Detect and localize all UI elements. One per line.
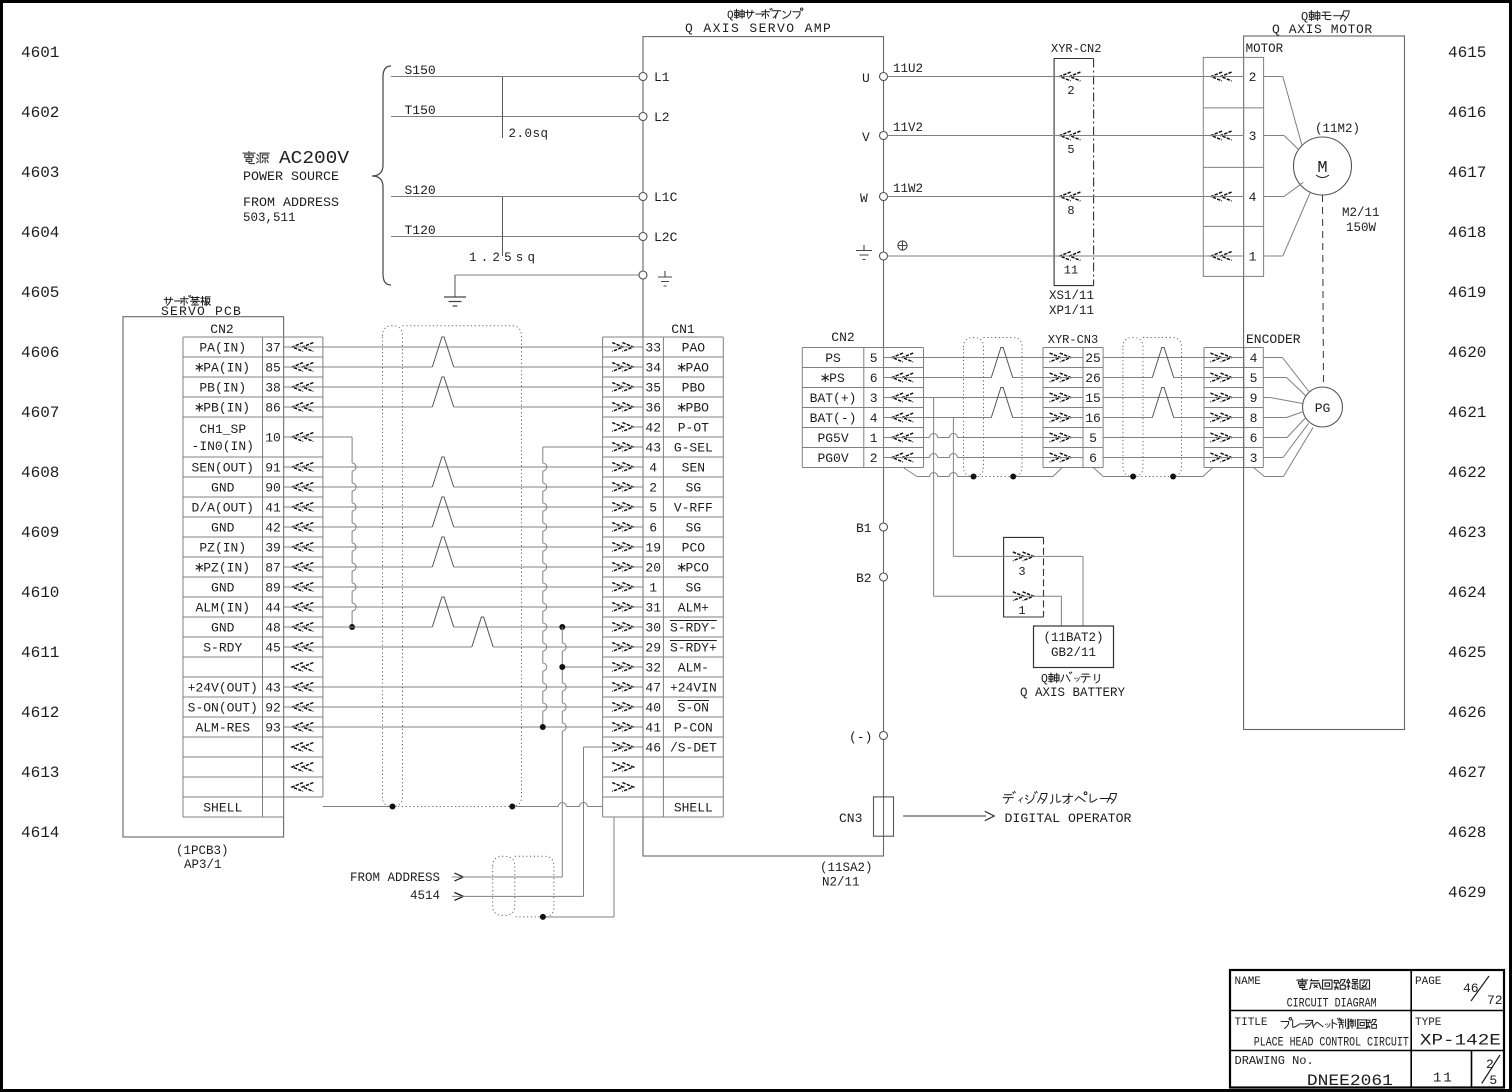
svg-text:XYR-CN3: XYR-CN3 [1048, 333, 1098, 347]
svg-text:PG0V: PG0V [817, 451, 848, 466]
svg-text:11: 11 [1433, 1071, 1454, 1087]
wire row 7 (SG) [284, 486, 433, 488]
svg-text:4604: 4604 [21, 224, 59, 242]
XYR-CN3 arrows [1050, 353, 1061, 362]
svg-text:39: 39 [265, 541, 281, 556]
svg-text:XP-142E: XP-142E [1420, 1032, 1501, 1050]
motor outer box M1 [1244, 36, 1405, 730]
battery connector box [1004, 537, 1044, 617]
svg-text:4623: 4623 [1448, 524, 1486, 542]
svg-text:PS: PS [825, 351, 841, 366]
svg-text:2: 2 [1249, 70, 1257, 85]
svg-text:Q: Q [1041, 673, 1048, 686]
svg-text:PA(IN): PA(IN) [199, 341, 246, 356]
svg-text:Q AXIS MOTOR: Q AXIS MOTOR [1272, 22, 1373, 37]
encoder wires to PG [1263, 357, 1282, 359]
svg-text:PB(IN): PB(IN) [199, 381, 246, 396]
wire PS row [884, 357, 1084, 359]
svg-text:43: 43 [265, 681, 281, 696]
svg-text:Q AXIS BATTERY: Q AXIS BATTERY [1020, 686, 1126, 700]
wire row 19 (P-CON) [284, 726, 643, 728]
svg-text:PBO: PBO [682, 381, 706, 396]
svg-text:3: 3 [870, 391, 878, 406]
svg-text:BAT(+): BAT(+) [810, 391, 857, 406]
svg-text:/S-DET: /S-DET [670, 741, 717, 756]
svg-text:1: 1 [1018, 604, 1025, 618]
svg-text:4627: 4627 [1448, 764, 1486, 782]
svg-text:42: 42 [265, 521, 281, 536]
svg-text:U: U [862, 71, 870, 86]
wire BAT(-) row [884, 417, 992, 419]
svg-text:4621: 4621 [1448, 404, 1486, 422]
svg-text:S150: S150 [405, 63, 436, 78]
svg-text:ENCODER: ENCODER [1246, 332, 1301, 347]
ENCODER arrows [1210, 353, 1221, 362]
svg-text:W: W [860, 191, 868, 206]
dashed link motor-encoder [1323, 195, 1324, 387]
CN1 arrows [612, 343, 623, 352]
svg-text:4: 4 [649, 461, 657, 476]
svg-text:85: 85 [265, 361, 281, 376]
wire /S-DET from below [584, 746, 644, 748]
wire PB row [284, 386, 643, 388]
svg-text:DRAWING No.: DRAWING No. [1235, 1054, 1314, 1068]
wire row 9 (SG) [284, 526, 433, 528]
svg-text:CN3: CN3 [839, 811, 862, 826]
ground symbol (power input) [444, 297, 466, 306]
svg-text:(11SA2): (11SA2) [820, 861, 873, 875]
svg-text:4609: 4609 [21, 524, 59, 542]
svg-text:V-RFF: V-RFF [674, 501, 713, 516]
svg-text:N2/11: N2/11 [822, 876, 860, 890]
svg-text:SG: SG [686, 581, 702, 596]
wire G-SEL from below [543, 446, 643, 448]
connector CN3 [874, 797, 894, 836]
svg-text:P-OT: P-OT [678, 421, 709, 436]
svg-text:GND: GND [211, 621, 235, 636]
wire CH1_SP-IN0 (pin10) down to GND48 row [284, 436, 353, 438]
svg-text:SERVO PCB: SERVO PCB [161, 304, 242, 319]
svg-text:S-ON(OUT): S-ON(OUT) [188, 701, 258, 716]
terminal W [880, 193, 888, 201]
svg-text:4620: 4620 [1448, 344, 1486, 362]
svg-text:15: 15 [1085, 391, 1101, 406]
svg-text:S120: S120 [405, 183, 436, 198]
svg-text:L2: L2 [654, 110, 670, 125]
svg-text:72: 72 [1487, 993, 1503, 1008]
svg-text:33: 33 [645, 341, 661, 356]
terminal B1 [880, 523, 888, 531]
svg-text:AP3/1: AP3/1 [184, 858, 222, 872]
svg-text:P-CON: P-CON [674, 721, 713, 736]
svg-text:T150: T150 [405, 103, 436, 118]
connector ENCODER table [1203, 348, 1205, 468]
svg-text:4614: 4614 [21, 824, 59, 842]
svg-text:+24VIN: +24VIN [670, 681, 717, 696]
svg-text:Q AXIS SERVO AMP: Q AXIS SERVO AMP [685, 21, 832, 36]
svg-text:PG5V: PG5V [817, 431, 848, 446]
svg-text:44: 44 [265, 601, 281, 616]
svg-text:4: 4 [1250, 351, 1258, 366]
CN2 (servo pcb) arrows [292, 343, 303, 352]
svg-text:1: 1 [649, 581, 657, 596]
svg-text:4622: 4622 [1448, 464, 1486, 482]
cable size tick 2.0sq [502, 77, 504, 138]
encoder cable shields (dotted) [964, 338, 984, 477]
svg-text:4: 4 [870, 411, 878, 426]
svg-text:4: 4 [1249, 190, 1257, 205]
motor wires to circle [1264, 76, 1283, 78]
svg-text:4612: 4612 [21, 704, 59, 722]
svg-text:PAO: PAO [682, 341, 706, 356]
svg-text:4624: 4624 [1448, 584, 1486, 602]
shield drain line (right) [903, 468, 917, 477]
svg-text:L2C: L2C [654, 230, 678, 245]
twisted pair marks (right) [991, 348, 1012, 378]
svg-text:1: 1 [870, 431, 878, 446]
terminal B2 [880, 573, 888, 581]
svg-text:S-RDY+: S-RDY+ [670, 641, 717, 656]
svg-text:8: 8 [1250, 411, 1258, 426]
svg-text:30: 30 [645, 621, 661, 636]
wire row 17 (+24VIN) [284, 686, 643, 688]
wire *PS row [884, 377, 992, 379]
svg-text:M2/11: M2/11 [1342, 206, 1380, 220]
shield drain SHELL-SHELL [323, 806, 390, 808]
svg-text:CIRCUIT DIAGRAM: CIRCUIT DIAGRAM [1287, 996, 1377, 1011]
svg-text:32: 32 [645, 661, 661, 676]
svg-text:25: 25 [1085, 351, 1101, 366]
svg-text:92: 92 [265, 701, 281, 716]
wire *PB row [284, 406, 433, 408]
svg-text:GND: GND [211, 581, 235, 596]
terminal ground (amp output) [880, 252, 888, 260]
svg-text:1: 1 [1249, 250, 1257, 265]
svg-text:D/A(OUT): D/A(OUT) [192, 501, 254, 516]
ground wire into amp [455, 274, 639, 276]
svg-text:PAGE: PAGE [1415, 976, 1442, 988]
svg-text:4605: 4605 [21, 284, 59, 302]
wire BAT(-) down to battery pin 3 [952, 418, 954, 557]
svg-text:NAME: NAME [1235, 976, 1262, 988]
svg-text:ALM-RES: ALM-RES [195, 721, 250, 736]
wire BAT(+) row [884, 397, 1084, 399]
svg-text:29: 29 [645, 641, 661, 656]
CN2 (amp encoder) arrows [892, 353, 903, 362]
svg-text:GB2/11: GB2/11 [1051, 646, 1096, 660]
svg-text:XP1/11: XP1/11 [1049, 304, 1094, 318]
svg-text:5: 5 [1489, 1073, 1497, 1088]
svg-text:2: 2 [649, 481, 657, 496]
svg-text:(-): (-) [849, 730, 872, 745]
svg-text:L1C: L1C [654, 190, 678, 205]
battery pin 3 [1013, 552, 1024, 561]
svg-text:6: 6 [870, 371, 878, 386]
svg-text:L1: L1 [654, 70, 670, 85]
wire row 18 (S-ON) [284, 706, 643, 708]
svg-text:V: V [862, 130, 870, 145]
svg-text:MOTOR: MOTOR [1246, 42, 1284, 56]
svg-text:PZ(IN): PZ(IN) [203, 561, 250, 576]
svg-text:4613: 4613 [21, 764, 59, 782]
svg-text:4619: 4619 [1448, 284, 1486, 302]
svg-text:1.25sq: 1.25sq [469, 251, 539, 265]
svg-text:91: 91 [265, 461, 281, 476]
wire ground phase [888, 255, 1244, 257]
wire ALM- segment [562, 666, 643, 668]
svg-text:6: 6 [1089, 451, 1097, 466]
svg-text:48: 48 [265, 621, 281, 636]
wire PA row [284, 346, 643, 348]
svg-text:3: 3 [1249, 129, 1257, 144]
svg-text:5: 5 [1089, 431, 1097, 446]
shield stub to CN1 SHELL bottom [613, 817, 615, 917]
terminal L1C [639, 193, 647, 201]
svg-text:DIGITAL OPERATOR: DIGITAL OPERATOR [1005, 811, 1132, 826]
servo amp outer box U1 [643, 37, 884, 856]
cable shield (left, dotted) [383, 326, 403, 807]
svg-text:10: 10 [265, 431, 281, 446]
connector XYR-CN3 table [1042, 348, 1044, 468]
svg-text:11U2: 11U2 [893, 62, 923, 76]
svg-text:-IN0(IN): -IN0(IN) [192, 439, 254, 454]
svg-text:4628: 4628 [1448, 824, 1486, 842]
svg-text:TITLE: TITLE [1235, 1017, 1268, 1029]
svg-text:S-ON: S-ON [678, 701, 709, 716]
svg-text:503,511: 503,511 [243, 211, 296, 225]
label: power source (JP+EN) [243, 151, 269, 163]
svg-text:ALM+: ALM+ [678, 601, 709, 616]
svg-text:2.0sq: 2.0sq [509, 127, 549, 141]
svg-text:38: 38 [265, 381, 281, 396]
svg-text:XS1/11: XS1/11 [1049, 289, 1094, 303]
svg-text:40: 40 [645, 701, 661, 716]
cable size tick 1.25sq [502, 197, 504, 256]
svg-text:DNEE2061: DNEE2061 [1307, 1072, 1393, 1090]
P-OT stub [631, 426, 643, 428]
svg-text:37: 37 [265, 341, 281, 356]
svg-text:SG: SG [686, 521, 702, 536]
svg-text:3: 3 [1250, 451, 1258, 466]
svg-text:90: 90 [265, 481, 281, 496]
wire row 8 (V-RFF) [284, 506, 643, 508]
svg-text:3: 3 [1018, 565, 1025, 579]
svg-text:4607: 4607 [21, 404, 59, 422]
label: Q AXIS BATTERY [0, 0, 1, 1]
svg-text:PZ(IN): PZ(IN) [199, 541, 246, 556]
svg-text:5: 5 [1067, 143, 1074, 157]
svg-text:SHELL: SHELL [674, 801, 713, 816]
svg-text:150W: 150W [1346, 221, 1377, 235]
svg-text:ALM(IN): ALM(IN) [195, 601, 250, 616]
terminal L2 [639, 113, 647, 121]
svg-text:TYPE: TYPE [1415, 1017, 1442, 1029]
svg-text:4618: 4618 [1448, 224, 1486, 242]
svg-text:B2: B2 [856, 571, 872, 586]
battery wires into battery box [1082, 556, 1084, 626]
svg-text:35: 35 [645, 381, 661, 396]
wire row 6 (SEN) [284, 466, 643, 468]
from-address shield (dotted) [493, 856, 515, 915]
svg-text:41: 41 [645, 721, 661, 736]
svg-text:PCO: PCO [682, 541, 706, 556]
terminal V [880, 132, 888, 140]
terminal L2C [639, 233, 647, 241]
svg-text:4603: 4603 [21, 164, 59, 182]
svg-text:PB(IN): PB(IN) [203, 401, 250, 416]
label: DIGITAL OPERATOR [1003, 791, 1116, 803]
svg-text:46: 46 [645, 741, 661, 756]
svg-text:6: 6 [649, 521, 657, 536]
svg-text:PBO: PBO [686, 401, 710, 416]
servo pcb outer box [123, 317, 284, 837]
battery GB2/11 box [1034, 626, 1114, 668]
svg-text:GND: GND [211, 481, 235, 496]
wire row 12 (SG) [284, 586, 643, 588]
wire row 13 (ALM+) [284, 606, 643, 608]
svg-text:PAO: PAO [686, 361, 710, 376]
svg-text:SEN(OUT): SEN(OUT) [192, 461, 254, 476]
plus-earth symbol [898, 241, 907, 250]
svg-text:4602: 4602 [21, 104, 59, 122]
svg-text:POWER SOURCE: POWER SOURCE [243, 169, 339, 184]
svg-text:SG: SG [686, 481, 702, 496]
svg-text:(11BAT2): (11BAT2) [1043, 631, 1103, 645]
svg-text:11V2: 11V2 [893, 121, 923, 135]
svg-text:4608: 4608 [21, 464, 59, 482]
svg-text:XYR-CN2: XYR-CN2 [1051, 42, 1101, 56]
svg-text:9: 9 [1250, 391, 1258, 406]
wire tap S-RDY- / ALM- / from-address-1 vertical [559, 624, 565, 630]
svg-text:4626: 4626 [1448, 704, 1486, 722]
svg-text:5: 5 [649, 501, 657, 516]
svg-text:PCO: PCO [686, 561, 710, 576]
svg-text:FROM ADDRESS: FROM ADDRESS [350, 871, 440, 885]
svg-text:SHELL: SHELL [203, 801, 242, 816]
connector CN2 (servo pcb) table [182, 337, 184, 817]
svg-text:11: 11 [1064, 264, 1078, 278]
svg-text:5: 5 [870, 351, 878, 366]
svg-text:PG: PG [1315, 401, 1331, 416]
wire *PA row [284, 366, 433, 368]
twisted pair marks (left) [432, 337, 453, 367]
wire BAT(+) down to battery pin 1 [933, 398, 935, 597]
svg-text:26: 26 [1085, 371, 1101, 386]
svg-text:CH1_SP: CH1_SP [199, 422, 246, 437]
svg-text:PS: PS [829, 371, 845, 386]
svg-text:41: 41 [265, 501, 281, 516]
wire row 10 (PCO) [284, 546, 643, 548]
svg-text:4601: 4601 [21, 44, 59, 62]
wire row 11 (*PCO) [284, 566, 433, 568]
svg-text:16: 16 [1085, 411, 1101, 426]
svg-text:4629: 4629 [1448, 884, 1486, 902]
svg-text:5: 5 [1250, 371, 1258, 386]
svg-text:GND: GND [211, 521, 235, 536]
svg-text:31: 31 [645, 601, 661, 616]
label: Q AXIS MOTOR [0, 0, 1, 1]
svg-text:4611: 4611 [21, 644, 59, 662]
svg-text:6: 6 [1250, 431, 1258, 446]
svg-text:19: 19 [645, 541, 661, 556]
svg-text:PLACE HEAD CONTROL CIRCUIT: PLACE HEAD CONTROL CIRCUIT [1254, 1035, 1409, 1050]
connector CN2 (amp encoder) table [801, 348, 803, 468]
svg-text:43: 43 [645, 441, 661, 456]
svg-text:T120: T120 [405, 223, 436, 238]
svg-text:11W2: 11W2 [893, 182, 923, 196]
svg-text:AC200V: AC200V [279, 149, 349, 169]
title block [1230, 970, 1504, 1088]
svg-text:93: 93 [265, 721, 281, 736]
svg-text:G-SEL: G-SEL [674, 441, 713, 456]
svg-text:4617: 4617 [1448, 164, 1486, 182]
terminal L1 [639, 73, 647, 81]
svg-text:8: 8 [1067, 204, 1074, 218]
svg-text:2: 2 [870, 451, 878, 466]
svg-text:4514: 4514 [410, 889, 440, 903]
svg-text:(1PCB3): (1PCB3) [176, 844, 229, 858]
svg-text:SEN: SEN [682, 461, 705, 476]
terminal U [880, 73, 888, 81]
svg-text:S-RDY: S-RDY [203, 641, 242, 656]
svg-text:86: 86 [265, 401, 281, 416]
arrow to digital operator [903, 815, 986, 817]
label: SERVO PCB [164, 295, 210, 305]
wire row 14 (S-RDY-) [284, 626, 433, 628]
wire row 15 (S-RDY+) [284, 646, 472, 648]
terminal PE with ground symbol [639, 271, 647, 279]
svg-text:47: 47 [645, 681, 661, 696]
svg-text:34: 34 [645, 361, 661, 376]
svg-text:S-RDY-: S-RDY- [670, 621, 717, 636]
battery pin 1 [1013, 592, 1024, 601]
svg-text:4616: 4616 [1448, 104, 1486, 122]
svg-text:42: 42 [645, 421, 661, 436]
svg-text:4610: 4610 [21, 584, 59, 602]
svg-text:4625: 4625 [1448, 644, 1486, 662]
wire PG0V row [884, 457, 930, 459]
svg-text:(11M2): (11M2) [1315, 122, 1360, 136]
svg-text:FROM ADDRESS: FROM ADDRESS [243, 195, 339, 210]
svg-text:4606: 4606 [21, 344, 59, 362]
label: Q AXIS SERVO AMP [0, 0, 1, 1]
curly brace for power group [372, 66, 391, 285]
svg-text:45: 45 [265, 641, 281, 656]
svg-text:BAT(-): BAT(-) [810, 411, 857, 426]
svg-text:4615: 4615 [1448, 44, 1486, 62]
motor M circle (11M2) [1294, 137, 1352, 195]
encoder PG circle [1303, 387, 1343, 427]
svg-text:36: 36 [645, 401, 661, 416]
svg-text:CN1: CN1 [671, 322, 695, 337]
wire PG5V row [884, 437, 930, 439]
svg-text:PA(IN): PA(IN) [203, 361, 250, 376]
svg-text:M: M [1317, 159, 1327, 178]
svg-text:87: 87 [265, 561, 281, 576]
svg-text:89: 89 [265, 581, 281, 596]
svg-text:20: 20 [645, 561, 661, 576]
svg-text:B1: B1 [856, 521, 872, 536]
svg-text:CN2: CN2 [831, 330, 854, 345]
svg-text:+24V(OUT): +24V(OUT) [188, 681, 258, 696]
terminal (-) [880, 732, 888, 740]
svg-text:ALM-: ALM- [678, 661, 709, 676]
connector CN1 table [602, 337, 604, 817]
svg-text:CN2: CN2 [210, 322, 233, 337]
svg-text:2: 2 [1067, 84, 1074, 98]
